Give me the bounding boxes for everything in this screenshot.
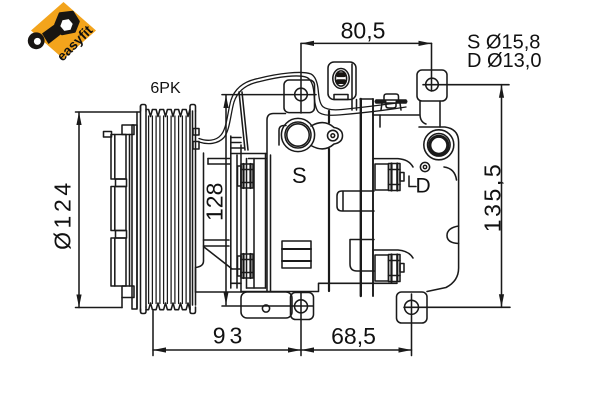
- front bracket top bolt: [238, 164, 254, 188]
- small bolt hole below D boss: [420, 162, 429, 171]
- dimension 135,5 line and arrows: [404, 85, 510, 308]
- D label leader: [409, 176, 416, 187]
- svg-text:93: 93: [213, 323, 247, 349]
- pulley rib lines: [149, 116, 187, 304]
- dimension 80,5 line and arrows: [301, 41, 432, 113]
- pulley body: [137, 105, 196, 314]
- svg-text:80,5: 80,5: [341, 17, 386, 43]
- top center bracket: [376, 94, 406, 110]
- dimension text diameter 124: [50, 179, 76, 250]
- front bracket plate: [247, 154, 266, 289]
- dimension 128 line and arrows: [222, 95, 316, 306]
- bottom mount pad center: [291, 293, 314, 320]
- discharge port boss D: [424, 130, 454, 160]
- svg-text:128: 128: [202, 183, 228, 221]
- top right mounting ear: [417, 70, 447, 101]
- easyfit logo diamond: [31, 2, 96, 59]
- compressor front housing: [196, 136, 245, 292]
- svg-text:Ø124: Ø124: [50, 179, 76, 250]
- lower boss tab: [350, 240, 374, 272]
- main body: [241, 114, 397, 292]
- svg-text:S: S: [292, 163, 307, 188]
- rear block: [373, 115, 459, 292]
- rear bracket bolts: [375, 164, 404, 282]
- top right ear leg: [420, 101, 440, 127]
- dimension text 6PK: [150, 80, 181, 97]
- svg-text:68,5: 68,5: [331, 323, 376, 349]
- bottom right mount pad: [397, 292, 428, 323]
- wire strip down to bracket: [239, 92, 248, 150]
- dimension text 68,5: [331, 323, 376, 349]
- dimension text S diameter 15,8: [467, 32, 540, 54]
- dimension text 80,5: [341, 17, 386, 43]
- dimension 68,5 line and arrows: [301, 294, 412, 356]
- D label: [416, 175, 431, 198]
- bottom mount pad left: [241, 292, 292, 318]
- pulley groove zigzag bottom: [146, 303, 190, 310]
- body joint line: [328, 111, 330, 123]
- dimension text 135,5: [480, 162, 506, 233]
- dimension text D diameter 13,0: [467, 50, 541, 72]
- clutch coil wire: [199, 72, 406, 143]
- dimension text 93: [213, 323, 247, 349]
- upper boss tab: [337, 191, 374, 211]
- dimension text 128: [202, 183, 228, 221]
- dimension 124 line and arrows: [76, 112, 141, 308]
- front bracket top arm: [231, 154, 266, 159]
- front bracket bottom bolt: [238, 254, 254, 278]
- electrical connector: [328, 62, 357, 110]
- suction port boss S: [281, 118, 342, 151]
- S label: [292, 163, 307, 188]
- pulley groove zigzag top: [146, 110, 190, 117]
- label plate: [282, 241, 311, 268]
- easyfit logo text: [54, 22, 96, 64]
- clutch disc plate: [132, 125, 137, 309]
- top mounting ear: [284, 80, 315, 113]
- clutch hub plates: [104, 125, 135, 308]
- coil housing tabs: [193, 129, 199, 150]
- svg-text:D: D: [416, 175, 431, 198]
- svg-text:D Ø13,0: D Ø13,0: [467, 50, 541, 72]
- easyfit logo wrench: [28, 12, 79, 49]
- dimension 93 line and arrows: [153, 293, 301, 356]
- rear bracket plate: [360, 99, 373, 296]
- svg-text:6PK: 6PK: [150, 80, 181, 97]
